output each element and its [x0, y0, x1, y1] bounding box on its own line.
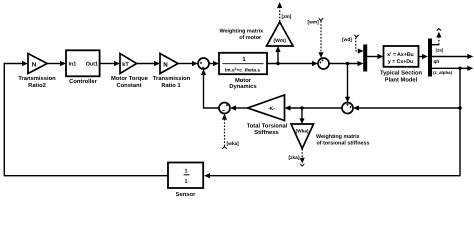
svg-text:Sensor: Sensor	[176, 191, 196, 198]
svg-text:Dynamics: Dynamics	[229, 83, 256, 90]
svg-text:Typical Section: Typical Section	[380, 69, 423, 76]
sensor block	[168, 163, 203, 189]
svg-text:Transmission: Transmission	[153, 75, 191, 82]
svg-text:[wka]: [wka]	[227, 141, 240, 147]
svg-text:(Wka): (Wka)	[295, 128, 308, 134]
svg-text:Motor: Motor	[235, 78, 252, 84]
sum2 circle	[219, 103, 230, 114]
svg-text:Controller: Controller	[69, 78, 97, 85]
node to Wka	[300, 106, 303, 109]
sum3 circle	[342, 103, 353, 114]
svg-text:Ratio 1: Ratio 1	[161, 82, 181, 89]
svg-text:Out1: Out1	[86, 62, 98, 68]
svg-text:Total Torsional: Total Torsional	[247, 122, 288, 129]
arrowhead into sum3 right	[353, 105, 359, 110]
transmission ratio2 triangle N	[28, 54, 47, 74]
dashed wire [wd] to mux	[356, 38, 358, 51]
controller block	[66, 50, 100, 76]
transmission ratio1 triangle N	[160, 54, 178, 74]
demux out1 stub	[432, 44, 439, 46]
sum1 circle	[198, 58, 209, 69]
arrowhead into sensor	[204, 173, 210, 178]
dashed wire [wka] to sum2	[224, 120, 226, 147]
svg-text:Weighting matrix: Weighting matrix	[219, 28, 263, 34]
dashed wire Wka to [zka]	[301, 149, 303, 158]
svg-text:N: N	[163, 61, 168, 68]
svg-text:-K-: -K-	[268, 106, 275, 112]
wire sum1 to motor dynamics	[209, 63, 214, 65]
svg-text:(Wm): (Wm)	[273, 38, 286, 44]
svg-text:of torsional stiffness: of torsional stiffness	[317, 140, 370, 146]
dashed wire [wm] to sum4	[320, 21, 322, 53]
dashed wire to [za]	[438, 37, 440, 45]
svg-text:Motor Torque: Motor Torque	[111, 76, 149, 82]
arrowhead into transmission ratio2	[22, 61, 28, 66]
typical section plant model block	[384, 46, 419, 67]
wire sum3 right input	[359, 107, 461, 109]
mux bar	[363, 45, 367, 72]
sum4 circle	[318, 58, 329, 69]
svg-text:of motor: of motor	[239, 35, 262, 41]
demux out3 z_alpha	[432, 67, 469, 69]
svg-text:N: N	[32, 61, 37, 68]
svg-text:Stiffness: Stiffness	[254, 129, 278, 136]
wire controller to kT	[100, 63, 115, 65]
wire branch up to Wm	[277, 52, 279, 64]
node sum3 branch	[458, 106, 461, 109]
svg-text:Transmission: Transmission	[18, 75, 56, 82]
wire plant to demux	[419, 56, 423, 58]
wire ratio1 to sum1	[178, 63, 193, 65]
motor torque constant triangle kT	[120, 54, 137, 74]
weighting matrix of torsional stiffness triangle (Wka)	[291, 124, 314, 149]
wire branch down to sum3	[347, 64, 349, 98]
svg-text:kT: kT	[122, 61, 129, 68]
svg-text:In1: In1	[69, 62, 77, 68]
svg-text:[za]: [za]	[436, 47, 444, 52]
dashed wire Wm to [zm]	[279, 9, 281, 22]
svg-text:qh: qh	[434, 59, 440, 65]
node z_alpha branch	[458, 67, 461, 70]
svg-text:Ratio2: Ratio2	[28, 82, 46, 89]
svg-text:[zka]: [zka]	[289, 155, 300, 161]
demux bar	[428, 39, 432, 77]
wire ratio2 to controller	[47, 63, 60, 65]
wire mux to plant	[367, 56, 378, 58]
wire sum2 to sum1	[204, 75, 220, 109]
svg-text:[wd]: [wd]	[342, 37, 352, 43]
motor dynamics block	[219, 53, 267, 74]
svg-text:1: 1	[185, 179, 188, 185]
wire sensor input bottom	[210, 68, 461, 175]
svg-text:(z_alpha): (z_alpha)	[433, 70, 453, 75]
svg-text:1: 1	[185, 168, 188, 174]
weighting matrix of motor triangle (Wm)	[267, 22, 294, 46]
wire -K- to sum2	[236, 107, 248, 109]
svg-text:Constant: Constant	[116, 82, 141, 89]
svg-text:Weighting matrix: Weighting matrix	[316, 134, 360, 140]
node below Wm	[276, 62, 279, 65]
wire kT to ratio1	[137, 63, 155, 65]
svg-text:Plant Model: Plant Model	[385, 77, 418, 84]
demux out2 qh	[432, 56, 469, 58]
wire sum3 to -K- gain	[290, 107, 342, 109]
svg-text:Im.s2+c_theta.s: Im.s2+c_theta.s	[225, 67, 261, 74]
wire motor dynamics to sum4	[267, 63, 313, 65]
wire sum4 to mux	[329, 63, 358, 65]
node to sum3	[346, 62, 349, 65]
svg-text:x' = Ax+Bu: x' = Ax+Bu	[387, 52, 413, 58]
svg-text:[zm]: [zm]	[282, 14, 292, 20]
wire feedback left vertical	[4, 64, 168, 176]
svg-text:[wm]: [wm]	[308, 19, 320, 25]
total torsional stiffness gain -K-	[248, 95, 285, 121]
wire branch down to Wka	[301, 108, 303, 119]
svg-text:y = Cx+Du: y = Cx+Du	[388, 59, 413, 65]
